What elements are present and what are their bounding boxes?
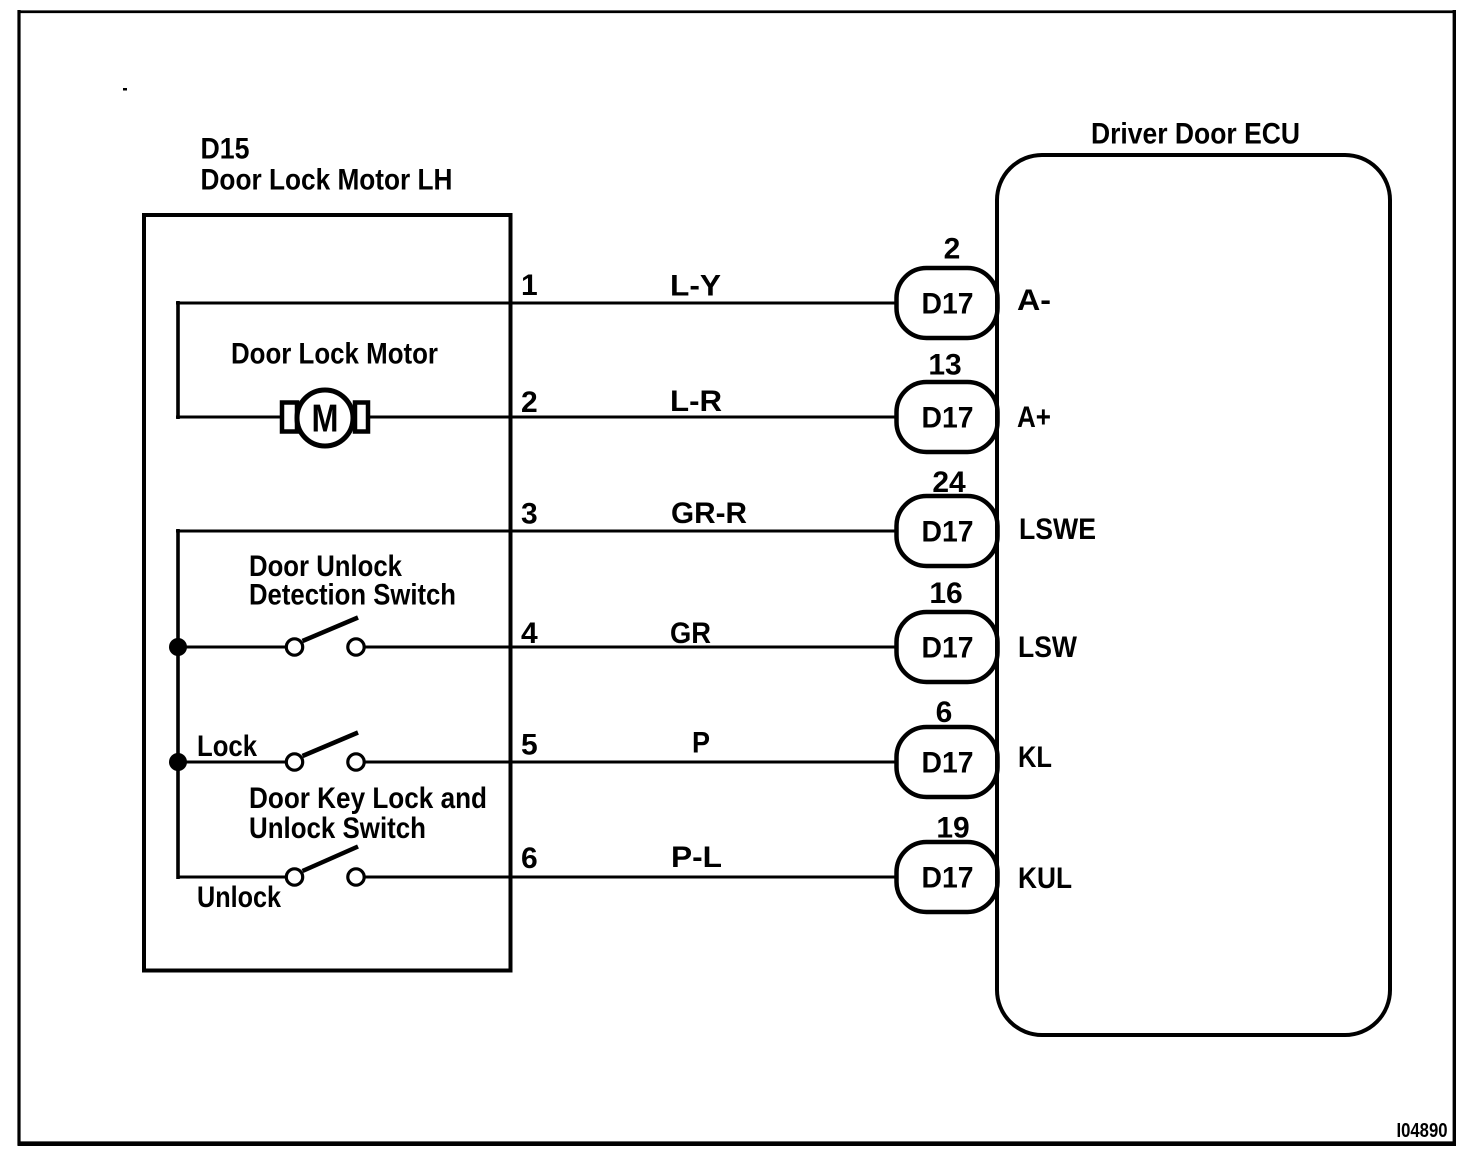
- connector D17 oval row 6: [897, 842, 998, 912]
- connector D17 oval row 3: [897, 496, 998, 566]
- connector D17 oval row 2: [897, 382, 998, 452]
- switch S3 contact right: [348, 869, 364, 885]
- svg-text:L-Y: L-Y: [670, 270, 721, 303]
- svg-text:2: 2: [521, 386, 538, 419]
- svg-text:A-: A-: [1017, 284, 1051, 317]
- svg-text:D17: D17: [922, 747, 974, 780]
- motor M brush right: [355, 403, 368, 432]
- svg-text:Door Lock Motor LH: Door Lock Motor LH: [201, 164, 453, 197]
- switch S1 blade: [303, 618, 359, 642]
- ECU U1 box: [997, 155, 1390, 1035]
- switch S2 blade: [303, 733, 359, 757]
- wire 6 left segment: [178, 876, 286, 879]
- svg-text:6: 6: [521, 842, 538, 875]
- svg-text:Door Lock Motor: Door Lock Motor: [231, 338, 438, 371]
- svg-text:LSWE: LSWE: [1019, 513, 1096, 546]
- svg-text:Unlock: Unlock: [197, 881, 281, 914]
- svg-text:P-L: P-L: [671, 841, 722, 874]
- junction node wire4: [169, 638, 187, 656]
- svg-text:KUL: KUL: [1018, 862, 1072, 895]
- motor M brush left: [282, 403, 297, 432]
- wire 4 right segment (GR): [365, 646, 898, 649]
- svg-text:Unlock Switch: Unlock Switch: [249, 812, 426, 845]
- svg-text:24: 24: [932, 466, 966, 499]
- svg-text:2: 2: [944, 233, 961, 266]
- connector D17 oval row 4: [897, 612, 998, 682]
- svg-text:19: 19: [936, 812, 969, 845]
- svg-text:D17: D17: [922, 288, 974, 321]
- svg-text:D15: D15: [201, 133, 250, 166]
- switch S1 contact left: [286, 639, 302, 655]
- svg-text:A+: A+: [1017, 401, 1051, 434]
- wire 4 left segment: [178, 646, 286, 649]
- svg-text:5: 5: [521, 729, 538, 762]
- svg-text:D17: D17: [922, 402, 974, 435]
- svg-text:GR-R: GR-R: [671, 497, 747, 530]
- connector D15 box: [144, 215, 511, 971]
- connector D17 oval row 1: [897, 268, 998, 338]
- svg-text:I04890: I04890: [1397, 1120, 1448, 1142]
- svg-text:Driver Door ECU: Driver Door ECU: [1091, 118, 1300, 151]
- svg-text:Lock: Lock: [197, 730, 257, 763]
- svg-text:D17: D17: [922, 862, 974, 895]
- wire 3 (pin3 to D17, GR-R): [176, 530, 897, 533]
- svg-text:GR: GR: [670, 617, 711, 650]
- wire 1 (pin1 to D17, L-Y): [176, 302, 897, 305]
- wire 6 right segment (P-L): [365, 876, 898, 879]
- svg-text:P: P: [692, 727, 710, 760]
- switch S1 contact right: [348, 639, 364, 655]
- motor M circle: [297, 390, 353, 446]
- svg-text:D17: D17: [922, 516, 974, 549]
- switch S2 contact right: [348, 754, 364, 770]
- svg-text:16: 16: [929, 577, 962, 610]
- svg-text:6: 6: [936, 696, 953, 729]
- wire 5 right segment (P): [365, 761, 898, 764]
- switch S3 blade: [303, 847, 359, 872]
- svg-text:L-R: L-R: [670, 385, 722, 418]
- svg-text:LSW: LSW: [1018, 631, 1078, 664]
- svg-text:KL: KL: [1018, 741, 1052, 774]
- wire vertical bus (switch common): [176, 529, 180, 879]
- svg-text:Detection Switch: Detection Switch: [249, 579, 456, 612]
- svg-text:3: 3: [521, 498, 538, 531]
- svg-text:M: M: [312, 398, 339, 441]
- speck: [123, 88, 127, 91]
- wire 2 (pin2 to D17, L-R): [176, 416, 897, 419]
- svg-text:D17: D17: [922, 632, 974, 665]
- svg-text:13: 13: [928, 349, 961, 382]
- switch S2 contact left: [286, 754, 302, 770]
- svg-text:1: 1: [521, 269, 538, 302]
- switch S3 contact left: [286, 869, 302, 885]
- connector D17 oval row 5: [897, 727, 998, 797]
- svg-text:4: 4: [521, 617, 538, 650]
- junction node wire5: [169, 753, 187, 771]
- wire 5 left segment: [178, 761, 286, 764]
- svg-text:Door Key Lock and: Door Key Lock and: [249, 782, 487, 815]
- wire motor loop left side: [176, 301, 180, 419]
